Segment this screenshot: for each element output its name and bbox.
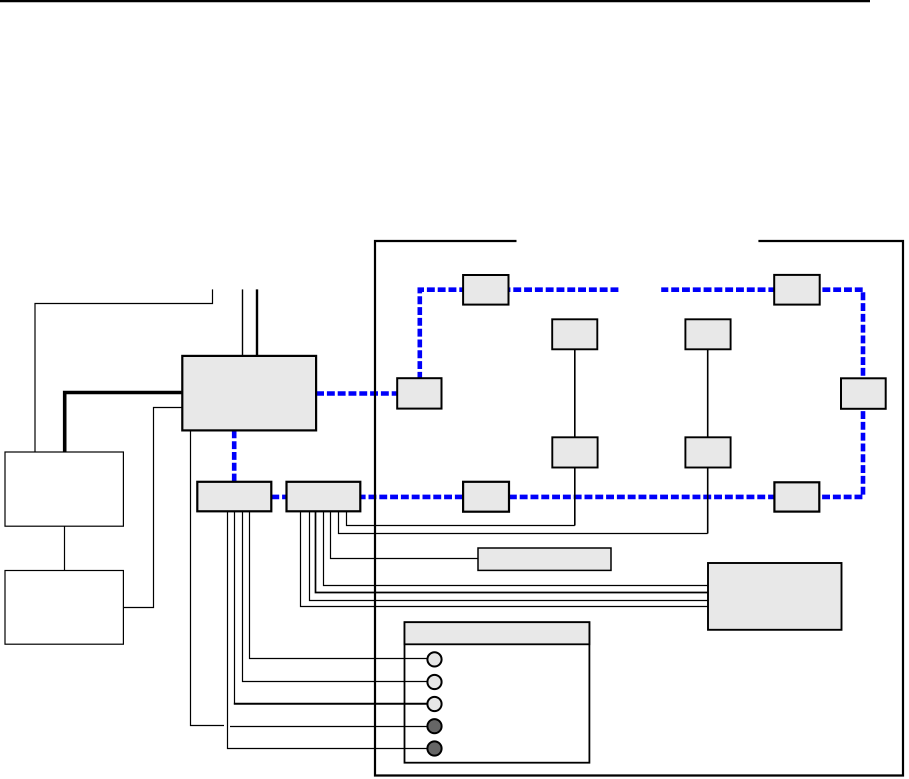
wire box A pin2 vertical — [234, 511, 236, 704]
wire column 1 upper — [574, 349, 576, 437]
right gray box — [708, 563, 842, 630]
wire white box 1 to white box 2 — [64, 526, 66, 570]
box SB3 — [774, 482, 819, 511]
wire box B pin6 to column 2 — [339, 511, 708, 533]
wire lamp 4 feed continuation — [230, 726, 428, 728]
wire blue dashed controller to SB1 — [316, 391, 398, 396]
lamp 2 — [427, 675, 441, 689]
wire box A pin4 to lamp 1 — [250, 511, 428, 658]
wire blue dashed bottom loop — [271, 290, 863, 497]
top rule — [0, 0, 870, 2]
box RB — [841, 378, 886, 409]
lamp 4 — [427, 719, 441, 733]
long gray box — [478, 548, 611, 570]
lamp 3 — [427, 697, 441, 711]
lamp 1 — [427, 652, 441, 666]
wire blue dashed top-left branch — [420, 290, 619, 379]
wire thick controller to white box 1 — [65, 393, 183, 453]
box 2b — [685, 319, 730, 349]
box 3b — [685, 437, 730, 467]
controller box — [182, 356, 316, 431]
white box 2 — [5, 571, 123, 645]
box A — [197, 482, 271, 512]
wire controller to white box 2 — [123, 408, 182, 608]
wire box B pin4 to right gray box — [324, 511, 709, 585]
lower panel box — [405, 622, 590, 763]
wire top-left L to white box 1 — [35, 289, 213, 452]
box 2a — [552, 319, 597, 349]
wire box B pin1 to right gray box — [301, 511, 709, 606]
wire controller down to lamp 4 (gap at crossing) — [191, 430, 225, 725]
lamp 5 — [427, 741, 441, 755]
wire thin stub into controller top — [242, 289, 244, 356]
box SB2 — [463, 482, 509, 512]
box TB1 — [463, 275, 508, 305]
wire box B pin5 to long gray box — [331, 511, 479, 558]
wire column 2 upper — [707, 349, 709, 437]
wire blue dashed controller down to box A — [232, 430, 237, 481]
wire box A pin3 to lamp 2 — [243, 511, 428, 681]
box B — [287, 482, 361, 512]
lower panel header band — [405, 622, 590, 644]
wire box A pin1 to lamp 5 — [228, 511, 428, 748]
enclosure box (top border with gap) — [375, 241, 903, 776]
wire box B pin2 to right gray box — [310, 511, 709, 600]
box 3a — [552, 437, 597, 467]
wire column 1 lower — [574, 468, 576, 526]
white box 1 — [5, 452, 123, 526]
wire thick stub into controller top — [256, 289, 258, 356]
wire column 2 lower — [707, 468, 709, 534]
wire box B pin7 to column 1 — [347, 511, 575, 525]
box TB2 — [774, 275, 820, 305]
box SB1 — [397, 378, 441, 408]
wire box A pin2 thick to lamp 3 — [234, 703, 428, 705]
wire box B pin3 thick to right gray box — [316, 511, 709, 592]
